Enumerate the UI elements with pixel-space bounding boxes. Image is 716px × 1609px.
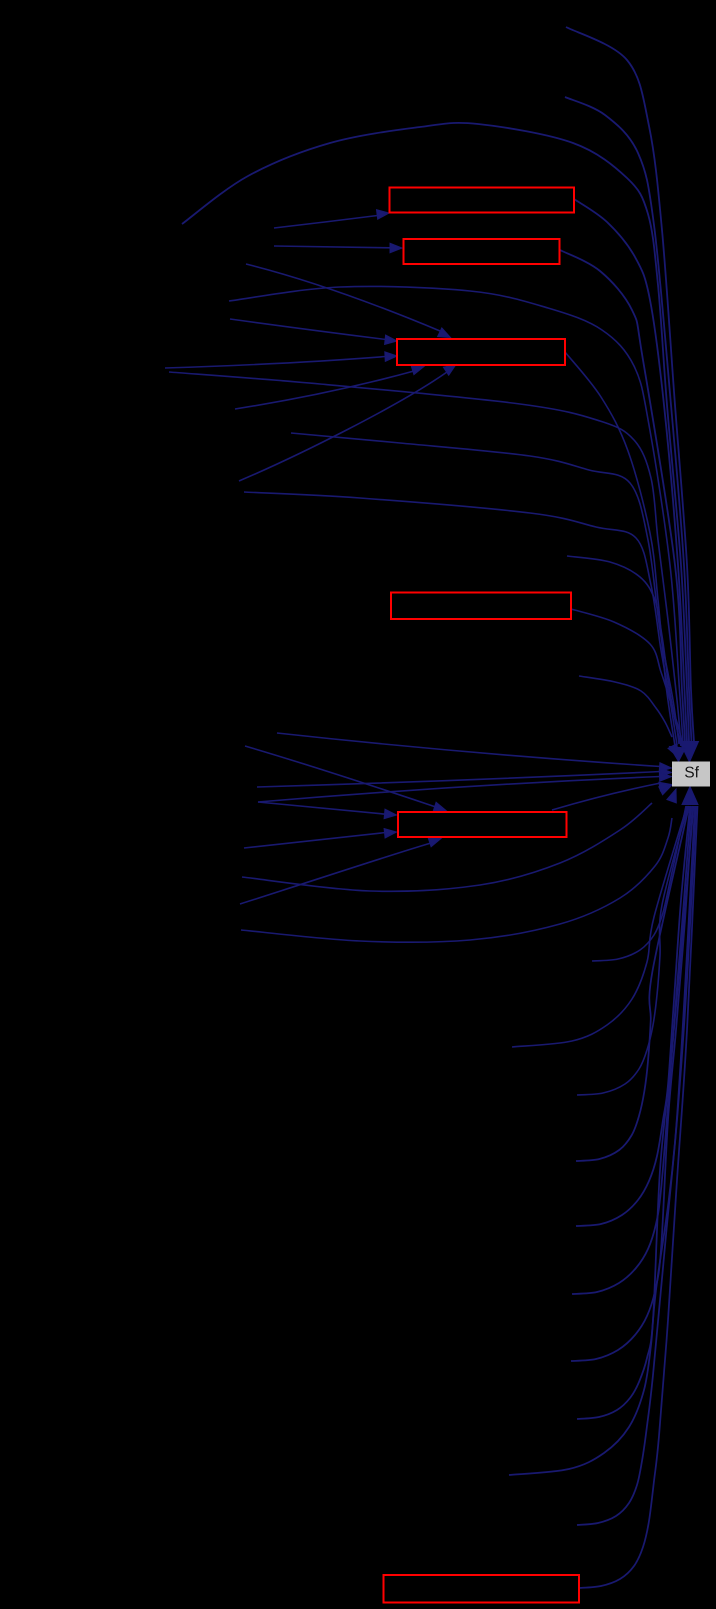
- edge to box2: [274, 246, 391, 248]
- arrowhead into Sf left 3: [659, 782, 672, 791]
- arrowhead into box2: [390, 243, 402, 253]
- arrowhead into Sf top-left: [668, 744, 679, 758]
- edge bottom node 2 to Sf: [577, 806, 688, 1095]
- edge bottom node 9 to Sf: [577, 806, 696, 1525]
- edge from top node a: [566, 27, 694, 742]
- edge to box1: [274, 216, 378, 229]
- arrowhead into box3 left 1: [385, 335, 397, 345]
- edge midair node b to Sf: [579, 676, 672, 737]
- edge box1 to Sf: [574, 199, 687, 742]
- node Sf: [673, 762, 710, 786]
- edge bottom node 0 to Sf: [592, 806, 686, 961]
- edge box2 to Sf: [560, 250, 685, 742]
- edge bottom node 1 to Sf: [512, 806, 687, 1047]
- edge midair node a to Sf: [567, 556, 681, 746]
- edge to box3 bottom 1: [235, 371, 414, 409]
- edge box5 to Sf: [552, 783, 661, 810]
- edge low arc to Sf bottom: [241, 818, 672, 942]
- edge left node 2 to Sf: [242, 803, 652, 891]
- arrowhead into box3 bottom 1: [411, 365, 424, 374]
- arrowhead into Sf left 2: [659, 786, 672, 795]
- arrowhead into Sf left 4: [659, 773, 671, 782]
- edge bottom node 5 to Sf: [572, 806, 691, 1294]
- edge left node 0 to Sf: [277, 733, 661, 767]
- arrowhead into box3 top: [438, 328, 451, 338]
- arrowhead into box5 top: [433, 802, 446, 811]
- node box1: [390, 188, 575, 213]
- arrowhead into box5 left 2: [384, 829, 396, 839]
- edge left node 3 to Sf: [258, 777, 661, 803]
- edge bottom node 8 to Sf: [509, 806, 695, 1475]
- edge to box3 top: [246, 264, 440, 331]
- edge long low line to Sf: [169, 372, 681, 744]
- edge bottom node 3 to Sf: [576, 806, 689, 1161]
- node box2: [404, 239, 560, 264]
- arrowhead into Sf top 2: [670, 747, 686, 762]
- arrowhead into Sf bottom-left: [667, 789, 676, 803]
- arrowhead into Sf left 1: [659, 768, 671, 777]
- edge box4 to Sf: [571, 609, 683, 746]
- edge to box3 left 1: [230, 319, 386, 340]
- arrowhead into Sf left 0: [659, 763, 671, 772]
- edge to box5 left 1: [258, 802, 386, 814]
- edge to box3 left 2: [165, 357, 386, 369]
- edge long arc from far-left node: [182, 123, 689, 742]
- edge to box5 left 2: [244, 833, 386, 849]
- edge to box5 bottom: [240, 843, 431, 904]
- edge bottom node 7 to Sf: [577, 806, 694, 1419]
- edge mid arc b to Sf: [244, 492, 677, 745]
- arrowhead into box1: [377, 210, 390, 220]
- arrowhead bundle into Sf bottom: [682, 787, 698, 805]
- edge box3 to Sf: [565, 352, 675, 746]
- arrowhead bundle into Sf top: [680, 742, 699, 763]
- edge to box3 bottom 2: [239, 372, 447, 481]
- node box4: [391, 593, 571, 620]
- edge bottom node 10 to Sf: [579, 806, 698, 1588]
- arrowhead into box3 left 2: [385, 352, 397, 362]
- edge to box5 top: [245, 746, 436, 807]
- node box3: [397, 339, 565, 365]
- arrowhead into box3 bottom 2: [443, 365, 456, 376]
- edge left node 1 to Sf: [257, 772, 661, 788]
- node box6: [384, 1575, 580, 1603]
- node box5: [398, 812, 567, 837]
- edge from top node b: [565, 97, 692, 742]
- edge bottom node 4 to Sf: [576, 806, 690, 1226]
- edge arc over box3 to Sf: [229, 286, 683, 743]
- edge mid arc a to Sf: [291, 433, 679, 744]
- arrowhead into box5 bottom: [428, 838, 441, 847]
- edge bottom node 6 to Sf: [571, 806, 693, 1361]
- arrowhead into box5 left 1: [384, 809, 396, 819]
